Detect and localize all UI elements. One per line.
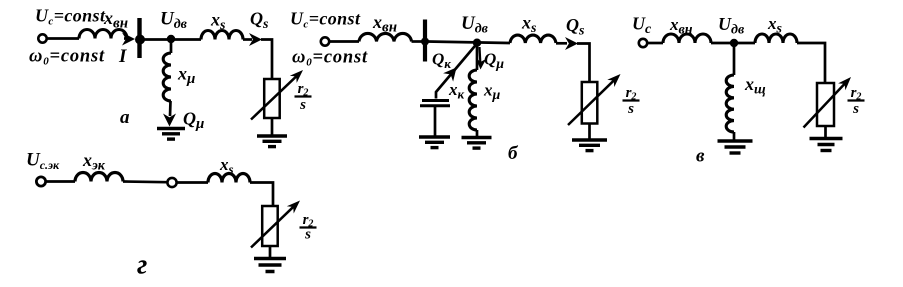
svg-text:Qк: Qк (432, 50, 451, 72)
wire rheostat to ground (a) (271, 118, 274, 135)
wire rheostat to ground (b) (588, 124, 591, 140)
svg-text:Uдв: Uдв (718, 14, 745, 38)
node U_dv junction dot (a) (167, 35, 175, 43)
svg-text:Qs: Qs (566, 15, 585, 39)
rheostat r2/s (v) (804, 77, 852, 128)
wire terminal to coil (v) (647, 42, 663, 45)
capacitor x_k plate2 (b) (420, 104, 450, 107)
label r2/s (a) (295, 81, 312, 113)
inductor x_s (a) (201, 31, 243, 40)
wire bar to node (b) (427, 42, 510, 44)
label x_s (a) (210, 10, 226, 34)
label x_mu (b) (483, 81, 501, 104)
ground below x_mu (a) (157, 129, 185, 140)
svg-text:s: s (627, 101, 634, 117)
wire node to capacitor diagonal (b) (436, 44, 477, 99)
label Q_s (b) (566, 15, 585, 39)
label x_s (v) (767, 14, 783, 37)
label U_dv (b) (461, 13, 489, 37)
svg-text:s: s (304, 227, 311, 243)
terminal U_c (circuit b) (321, 37, 329, 45)
inductor x_mu (b) (469, 70, 477, 130)
label omega_0=const (b) (292, 48, 368, 69)
bus bar at motor terminal (b) (421, 20, 429, 62)
label U_c=const (b) (290, 9, 361, 31)
wire rheostat to ground (g) (269, 246, 272, 257)
label x_vn (v) (669, 15, 693, 38)
terminal U_c (circuit a) (38, 34, 46, 42)
label U_c=const (a) (35, 6, 106, 28)
wire node down (v) (733, 43, 736, 75)
bus bar at motor terminal (a) (135, 18, 145, 58)
label x_mu (a) (177, 64, 195, 88)
label r2/s (b) (623, 85, 640, 117)
node circle (g) (167, 178, 176, 187)
wire to corner and down (b) (577, 44, 590, 83)
svg-text:xs: xs (521, 13, 537, 37)
svg-text:ω0=const: ω0=const (29, 47, 105, 68)
inductor x_sh (v) (726, 75, 734, 132)
svg-text:Uс=const: Uс=const (35, 6, 106, 28)
sublabel g (137, 250, 147, 281)
wire node down (a) (170, 39, 173, 54)
wire coil to node circle (g) (123, 180, 167, 183)
ground below rheostat (g) (254, 259, 286, 272)
sublabel b (508, 143, 519, 164)
svg-text:xμ: xμ (483, 81, 501, 104)
label r2/s (v) (848, 85, 865, 117)
wire terminal to coil (b) (329, 40, 359, 43)
node U_dv junction dot (b) (473, 39, 481, 47)
svg-text:xэк: xэк (82, 150, 106, 174)
svg-text:xвн: xвн (103, 8, 128, 32)
svg-text:Uдв: Uдв (160, 9, 188, 33)
wire terminal to coil (a) (47, 37, 79, 40)
svg-text:xщ: xщ (744, 74, 766, 98)
wire x_mu to ground (b) (476, 130, 479, 136)
wire node to coil (g) (177, 181, 208, 184)
wire to corner and down (v) (797, 43, 825, 83)
inductor x_mu (a) (163, 53, 171, 101)
label U_c (v) (632, 14, 652, 38)
wire to corner and down (a) (261, 40, 272, 80)
label U_dv (a) (160, 9, 188, 33)
label Q_mu (a) (183, 109, 204, 133)
ground below x_sh (v) (718, 141, 753, 153)
label I (a) (118, 46, 127, 67)
label Q_s (a) (250, 9, 269, 33)
node U_dv junction dot (v) (730, 39, 738, 47)
inductor x_s (g) (208, 174, 250, 183)
rheostat r2/s (g) (251, 201, 300, 248)
inductor x_vn (b) (359, 33, 412, 41)
rheostat r2/s (a) (251, 70, 303, 120)
wire coil to bar (b) (412, 40, 424, 43)
wire to corner and down (g) (250, 183, 273, 207)
terminal U_c.ek (circuit g) (36, 177, 45, 186)
ground below rheostat (b) (572, 140, 607, 151)
ground below x_mu (b) (462, 138, 492, 149)
inductor x_s (v) (755, 34, 797, 43)
svg-text:Uдв: Uдв (461, 13, 489, 37)
label x_s (b) (521, 13, 537, 37)
wire x_sh to ground (v) (733, 132, 736, 140)
label x_vn (a) (103, 8, 128, 32)
inductor x_ek (g) (75, 173, 123, 182)
svg-text:xs: xs (210, 10, 226, 34)
current arrow I (a) (122, 33, 135, 46)
svg-text:s: s (852, 101, 859, 117)
arrow Q_k toward node (b) (443, 68, 456, 82)
svg-text:xs: xs (219, 155, 234, 177)
wire capacitor to ground (b) (434, 106, 437, 136)
sublabel a (120, 107, 130, 128)
label x_k (b) (448, 80, 465, 102)
inductor x_s (b) (510, 35, 556, 43)
svg-text:в: в (696, 146, 705, 167)
svg-text:Qμ: Qμ (183, 109, 204, 133)
svg-text:б: б (508, 143, 519, 164)
inductor x_vn (v) (663, 34, 711, 43)
arrow Q_s (a) (243, 33, 262, 46)
inductor x_vn (a) (79, 30, 127, 39)
arrow Q_mu (b) (476, 47, 487, 70)
label x_vn (b) (372, 12, 397, 36)
ground below rheostat (a) (257, 136, 287, 147)
wire node down (b) (476, 42, 479, 71)
svg-text:Uс=const: Uс=const (290, 9, 361, 31)
sublabel v (696, 146, 705, 167)
svg-text:г: г (137, 250, 147, 281)
terminal U_c (circuit v) (639, 39, 647, 47)
rheostat r2/s (b) (568, 74, 621, 125)
wire bar to node (a) (142, 38, 202, 41)
svg-text:а: а (120, 107, 130, 128)
svg-text:s: s (299, 97, 306, 113)
svg-text:Qs: Qs (250, 9, 269, 33)
label r2/s (g) (300, 212, 317, 243)
arrow Q_mu to ground (a) (163, 101, 176, 127)
svg-text:xк: xк (448, 80, 465, 102)
arrow Q_s (b) (556, 37, 578, 50)
label x_sh (v) (744, 74, 766, 98)
svg-text:xμ: xμ (177, 64, 195, 88)
label Q_mu (b) (484, 50, 504, 73)
wire coil to node to coil (v) (711, 42, 755, 45)
ground below capacitor (b) (419, 137, 450, 148)
capacitor x_k plate1 (b) (422, 99, 449, 102)
svg-text:ω0=const: ω0=const (292, 48, 368, 69)
svg-text:Uс.эк: Uс.эк (26, 150, 60, 173)
ground below rheostat (v) (810, 139, 843, 151)
wire rheostat to ground (v) (824, 126, 827, 137)
label x_ek (g) (82, 150, 106, 174)
svg-text:I: I (118, 46, 127, 67)
svg-text:xвн: xвн (372, 12, 397, 36)
label omega_0=const (a) (29, 47, 105, 68)
wire terminal to coil (g) (46, 180, 75, 183)
label x_s (g) (219, 155, 234, 177)
svg-text:Qμ: Qμ (484, 50, 504, 73)
label U_dv (v) (718, 14, 745, 38)
svg-text:Uс: Uс (632, 14, 652, 38)
label Q_k (b) (432, 50, 451, 72)
label U_c.ek (g) (26, 150, 60, 173)
